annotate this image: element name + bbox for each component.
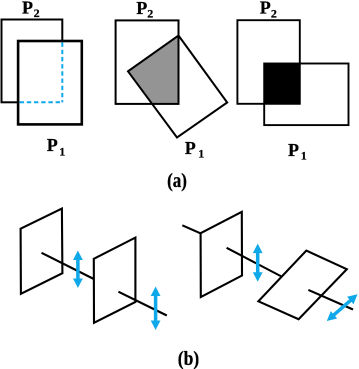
svg-text:2: 2 xyxy=(34,6,40,20)
svg-text:1: 1 xyxy=(301,149,307,163)
polarization arrow 1 (vertical, cyan) xyxy=(73,251,83,289)
svg-text:(a): (a) xyxy=(167,170,187,193)
label P1 (panel a, right figure) xyxy=(288,140,307,163)
polarizer P1 rotated square (panel a, middle figure) xyxy=(128,36,227,138)
svg-text:P: P xyxy=(22,0,33,18)
polarization arrow 4 (tilted, cyan) xyxy=(327,294,358,321)
svg-text:P: P xyxy=(288,140,299,160)
light ray through sheet 1 xyxy=(42,253,94,279)
svg-text:P: P xyxy=(136,0,147,18)
label P2 (panel a, middle figure) xyxy=(136,0,153,20)
svg-text:P: P xyxy=(47,135,58,155)
polarizer P1 rectangle (panel a, left figure, white fill hides P2 edges) xyxy=(18,41,82,124)
polarizer P2 rectangle (panel a, right figure) xyxy=(237,20,299,104)
polarizer P2 rectangle (panel a, left figure) xyxy=(2,20,63,103)
svg-text:P: P xyxy=(185,138,196,158)
polarization arrow 3 (vertical, cyan) xyxy=(253,244,263,282)
polarizer sheet 2 (panel b, left pair) xyxy=(94,238,136,323)
incoming ray stub (panel b, right pair) xyxy=(182,225,200,233)
svg-text:P: P xyxy=(260,0,271,17)
polarizer P2 rectangle (panel a, middle figure) xyxy=(116,20,179,104)
svg-text:1: 1 xyxy=(198,147,204,161)
black overlap square (panel a, right figure) xyxy=(264,64,300,104)
svg-text:(b): (b) xyxy=(178,348,199,369)
light ray through sheet 4 xyxy=(308,290,353,310)
label P2 (panel a, right figure) xyxy=(260,0,277,21)
caption (b) xyxy=(178,348,199,369)
rotated polarizer sheet 4 (panel b, right pair) xyxy=(258,251,346,320)
svg-text:2: 2 xyxy=(271,7,277,21)
light ray through sheet 2 xyxy=(118,292,166,316)
gray overlap region (panel a, middle figure) xyxy=(128,36,179,104)
svg-text:1: 1 xyxy=(59,145,65,159)
polarization arrow 2 (vertical, cyan) xyxy=(151,287,161,331)
dashed hidden right edge of P2 (cyan) xyxy=(61,43,63,103)
polarizer sheet 1 (panel b, left pair) xyxy=(21,209,63,294)
label P1 (panel a, middle figure) xyxy=(185,138,205,161)
label P1 (panel a, left figure) xyxy=(47,135,66,159)
polarizer sheet 3 (panel b, right pair) xyxy=(201,212,242,297)
polarizer P1 rectangle (panel a, right figure) xyxy=(264,64,348,126)
label P2 (panel a, left figure) xyxy=(22,0,40,20)
caption (a) xyxy=(167,170,187,193)
light ray through sheet 3 xyxy=(227,248,282,277)
dashed hidden bottom edge of P2 (cyan) xyxy=(20,101,63,103)
svg-text:2: 2 xyxy=(147,6,153,20)
